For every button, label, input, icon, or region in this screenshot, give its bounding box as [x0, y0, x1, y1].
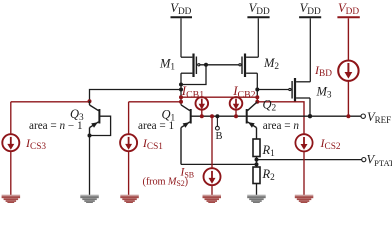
node M1 gate junction: [204, 63, 208, 67]
ground R2 (gray): [247, 195, 266, 204]
wire red rail ICS1 segment: [129, 101, 181, 103]
transistor Q2: [246, 102, 258, 139]
wire red rail A (ICB tops): [181, 96, 257, 98]
node rail at Q1 collector lower: [179, 100, 183, 104]
svg-text:area = n: area = n: [263, 120, 300, 132]
node Q3 collector: [88, 99, 92, 103]
node R1 R2 junction upper: [255, 158, 259, 162]
current source IBD: [338, 60, 358, 116]
ground ICS2 (red): [295, 195, 314, 204]
current source ICB2: [230, 97, 243, 116]
emitter arrow Q2: [248, 122, 255, 128]
node R1 R2 junction lower: [255, 162, 259, 166]
ground ICS1 (red): [120, 195, 139, 204]
ground Q3 (gray): [80, 195, 99, 204]
supply VDD3: [299, 17, 321, 82]
wire M1 gate to M2 gate: [200, 64, 239, 66]
transistor Q3: [90, 101, 101, 136]
node IBD at VREF: [346, 114, 350, 118]
wire base bus: [191, 115, 246, 117]
wire collector bus Q3 to M1 drain: [90, 90, 182, 101]
supply VDD4 (red): [337, 17, 359, 60]
supply VDD2: [247, 17, 269, 57]
terminal VPTAT: [362, 158, 366, 162]
transistor M3: [289, 78, 311, 102]
wire M2 drain riser: [256, 73, 258, 97]
node Q2 collector red: [255, 100, 259, 104]
emitter arrow Q3: [91, 122, 98, 128]
node rail A at M2 drain: [255, 95, 259, 99]
emitter arrow Q1: [183, 122, 190, 128]
wire R1 to R2: [256, 157, 258, 168]
node bus at M1 drain: [179, 88, 183, 92]
wire Q3 emitter to ground: [89, 136, 91, 197]
current source ISB: [204, 116, 221, 196]
node Q3 emitter-base: [88, 134, 92, 138]
terminal B: [216, 116, 218, 126]
node rail A at Q1 collector: [179, 95, 183, 99]
transistor M1: [181, 54, 200, 78]
svg-text:area = n − 1: area = n − 1: [29, 120, 83, 132]
transistor M2: [239, 54, 258, 78]
wire M1 drain / Q1 collector vertical: [180, 73, 182, 105]
node ISB top: [210, 114, 214, 118]
resistor R1: [253, 139, 260, 157]
current source ICS2: [295, 134, 312, 196]
wire M3 gate to M2 drain: [257, 89, 289, 91]
node M3 drain on VREF line: [308, 114, 312, 118]
svg-text:B: B: [216, 131, 223, 142]
node ICB1 bottom: [200, 114, 204, 118]
wire R2 to ground: [256, 184, 258, 197]
wire red rail left (ICS3 to Q3 collector): [11, 101, 90, 103]
transistor Q1: [181, 105, 192, 165]
wire red rail to ICS2: [257, 102, 304, 134]
ground ISB (red): [203, 195, 222, 204]
resistor R2: [253, 167, 260, 184]
current source ICS1: [120, 102, 137, 196]
node B stub: [215, 114, 219, 118]
wire M3 drain riser: [309, 98, 311, 116]
node M3 gate at M2 drain: [255, 88, 259, 92]
node ICB2 bottom: [234, 114, 238, 118]
wire VREF line: [247, 115, 361, 117]
supply VDD1: [171, 17, 193, 57]
wire red riser M2 drain: [256, 97, 258, 102]
wire Q1 emitter to R1R2 junction: [181, 163, 257, 165]
wire Q3 base loop: [90, 116, 111, 135]
node M1 drain loop junction: [179, 83, 183, 87]
wire VPTAT line: [257, 159, 362, 161]
ground ICS3 (red): [2, 195, 21, 204]
svg-text:area = 1: area = 1: [138, 120, 174, 132]
wire M1 diode connection loop: [181, 65, 206, 85]
terminal VREF: [361, 114, 365, 118]
current source ICS3: [2, 102, 19, 196]
current source ICB1: [196, 97, 209, 116]
